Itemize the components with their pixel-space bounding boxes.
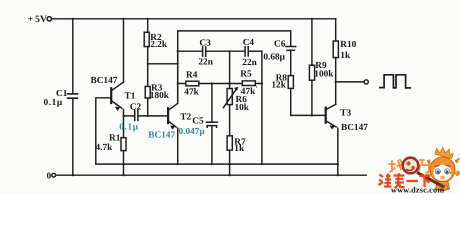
svg-text:T2: T2 bbox=[180, 112, 191, 122]
watermark badge circle bbox=[403, 158, 419, 174]
resistor R5 bbox=[242, 81, 255, 86]
wire C3-C4 midpoint down to R6 bbox=[229, 51, 231, 88]
svg-text:+ 5V: + 5V bbox=[28, 14, 48, 25]
node output terminal circle bbox=[364, 80, 368, 84]
svg-text:R4: R4 bbox=[186, 71, 198, 81]
svg-text:C5: C5 bbox=[192, 117, 204, 127]
wire right network vertical bbox=[261, 51, 263, 164]
node 0V terminal bbox=[52, 173, 56, 177]
watermark text 维库一下 (red, drawn strokes) bbox=[379, 173, 431, 188]
resistor R2 bbox=[147, 19, 149, 32]
resistor R1 bbox=[121, 138, 126, 151]
wire T3 base bbox=[291, 114, 325, 116]
wire C3/C4 top wire bbox=[178, 50, 202, 52]
svg-text:BC147: BC147 bbox=[341, 123, 368, 133]
svg-text:T1: T1 bbox=[125, 91, 136, 101]
transistor T1 bbox=[123, 19, 125, 82]
transistor T2 bbox=[167, 108, 169, 123]
svg-text:1k: 1k bbox=[340, 51, 351, 61]
svg-text:R5: R5 bbox=[240, 69, 252, 79]
wire C6 feed (top of T2 collector line) bbox=[178, 31, 291, 46]
svg-text:C4: C4 bbox=[243, 38, 255, 48]
wire T1 base bbox=[96, 98, 110, 164]
svg-text:BC147: BC147 bbox=[91, 76, 118, 86]
svg-text:22n: 22n bbox=[198, 57, 213, 67]
resistor R9 bbox=[311, 19, 313, 65]
capacitor C2 bbox=[124, 115, 134, 117]
svg-text:47k: 47k bbox=[184, 87, 199, 97]
svg-text:R10: R10 bbox=[340, 40, 356, 50]
wire top +5V rail bbox=[52, 18, 336, 20]
resistor R7 bbox=[227, 136, 232, 150]
svg-text:0.047μ: 0.047μ bbox=[179, 127, 206, 137]
svg-text:www.dzsc.com: www.dzsc.com bbox=[391, 186, 444, 194]
svg-text:2.2k: 2.2k bbox=[150, 40, 168, 50]
resistor R4 bbox=[186, 81, 199, 86]
svg-text:′: ′ bbox=[256, 84, 258, 93]
svg-text:22n: 22n bbox=[242, 58, 257, 68]
svg-text:C6: C6 bbox=[274, 39, 286, 49]
wire emitter net bbox=[96, 163, 338, 165]
capacitor C6 bbox=[286, 46, 296, 48]
watermark mascot lion bbox=[417, 148, 460, 191]
resistor R3 bbox=[147, 64, 149, 87]
potentiometer R6 bbox=[227, 89, 232, 105]
svg-text:0.68μ: 0.68μ bbox=[263, 52, 285, 62]
svg-text:0.1μ: 0.1μ bbox=[119, 122, 138, 132]
svg-text:0: 0 bbox=[47, 170, 52, 180]
watermark text 找芯片 (orange, drawn strokes) bbox=[389, 160, 429, 173]
wire R2-R3 junction to T2 collector line bbox=[148, 63, 178, 65]
resistor R10 bbox=[335, 19, 337, 41]
svg-text:12k: 12k bbox=[271, 81, 286, 91]
svg-text:T3: T3 bbox=[340, 109, 351, 119]
wire output tap bbox=[336, 81, 364, 83]
wire R4/R5 row bbox=[178, 83, 262, 85]
square wave symbol bbox=[380, 75, 410, 88]
svg-text:180k: 180k bbox=[150, 91, 170, 101]
wire T2 collector line verticals bbox=[177, 51, 179, 103]
svg-text:C2: C2 bbox=[130, 102, 142, 112]
wire bottom 0V rail bbox=[56, 174, 367, 176]
svg-text:4.7k: 4.7k bbox=[96, 143, 114, 153]
svg-text:1k: 1k bbox=[234, 144, 245, 154]
capacitor C4 bbox=[244, 47, 246, 56]
capacitor C3 bbox=[202, 47, 204, 56]
watermark dzsc logo bbox=[379, 148, 460, 195]
svg-text:C3: C3 bbox=[199, 39, 211, 49]
svg-text:0.1μ: 0.1μ bbox=[44, 98, 63, 108]
svg-text:100k: 100k bbox=[314, 69, 334, 79]
capacitor C5 bbox=[211, 84, 213, 122]
transistor T3 bbox=[325, 108, 327, 123]
svg-text:10k: 10k bbox=[235, 103, 250, 113]
capacitor C1 bbox=[72, 19, 74, 94]
svg-text:BC147: BC147 bbox=[148, 130, 175, 140]
+5V terminal bbox=[47, 17, 51, 21]
resistor R8 bbox=[288, 76, 293, 89]
